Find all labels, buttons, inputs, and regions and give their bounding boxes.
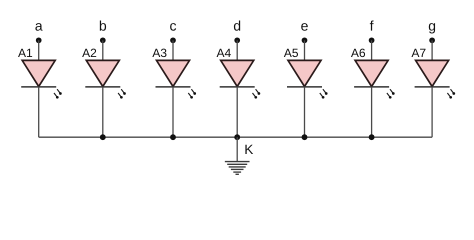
node e xyxy=(301,23,308,43)
wire xyxy=(236,87,238,137)
LED A1 xyxy=(18,49,62,99)
wire xyxy=(236,40,238,61)
node d xyxy=(234,20,240,43)
wire xyxy=(304,87,306,137)
junction xyxy=(100,134,106,140)
LED A3 xyxy=(152,49,196,99)
wire xyxy=(102,87,104,137)
node b xyxy=(100,20,106,43)
wire xyxy=(172,87,174,137)
node g xyxy=(429,23,435,43)
wire xyxy=(431,87,433,137)
wire xyxy=(431,40,433,61)
wire xyxy=(371,40,373,61)
node c xyxy=(170,23,176,43)
LED A6 xyxy=(351,49,395,99)
junction xyxy=(369,134,375,140)
wire xyxy=(38,40,40,61)
node K xyxy=(245,145,253,154)
wire xyxy=(172,40,174,61)
wire xyxy=(38,87,40,137)
ground xyxy=(225,162,250,175)
node a xyxy=(35,23,42,43)
LED A5 xyxy=(284,49,328,99)
junction xyxy=(234,134,240,140)
junction xyxy=(302,134,308,140)
wire xyxy=(304,40,306,61)
wire xyxy=(236,137,238,161)
wire xyxy=(371,87,373,137)
wire cathode bus xyxy=(39,136,432,138)
node f xyxy=(369,20,375,43)
LED A4 xyxy=(217,49,261,99)
junction xyxy=(170,134,176,140)
wire xyxy=(102,40,104,61)
LED A2 xyxy=(82,49,126,99)
LED A7 xyxy=(411,49,455,99)
